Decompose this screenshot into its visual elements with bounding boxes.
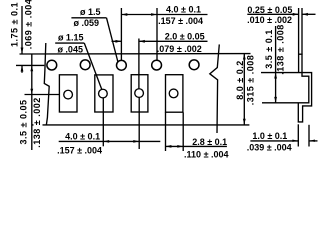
dim 2.8 extension right <box>182 112 184 151</box>
dim 4.0 top extension right <box>156 8 158 60</box>
arrow dim1.0 left (pointing right) <box>292 140 298 142</box>
sprocket hole S4 <box>152 60 162 70</box>
dim 0.25 extension left <box>298 8 300 54</box>
pocket2 center extension lower <box>102 98 104 146</box>
svg-text:.138 ± .008: .138 ± .008 <box>276 24 286 74</box>
svg-text:2.8 ± 0.1: 2.8 ± 0.1 <box>192 137 227 147</box>
arrow dim4.0bot right <box>133 140 139 143</box>
dim 1.75 lower arrow stub <box>21 65 23 72</box>
svg-text:3.5 ± 0.1: 3.5 ± 0.1 <box>264 29 274 68</box>
svg-text:.157 ± .004: .157 ± .004 <box>57 145 102 155</box>
dim 4.0 bottom line <box>59 140 161 142</box>
svg-text:ø .045: ø .045 <box>57 44 83 54</box>
arrow dim8.0 top <box>243 54 246 60</box>
pocket P4 <box>166 75 183 113</box>
pocket P2 <box>95 75 113 112</box>
dim 8.0 line <box>243 54 245 125</box>
dim 1.0 extension right <box>308 125 310 147</box>
pocket center extension line <box>25 94 60 96</box>
svg-text:0.25 ± 0.05: 0.25 ± 0.05 <box>247 5 292 15</box>
svg-text:1.75 ± 0.1: 1.75 ± 0.1 <box>10 2 20 47</box>
dim 0.25 extension right <box>301 8 303 54</box>
dia 1.15 underline <box>55 42 84 44</box>
dia 1.5 underline <box>71 17 106 19</box>
svg-text:1.0 ± 0.1: 1.0 ± 0.1 <box>252 131 287 141</box>
pocket hole H1 <box>64 90 73 99</box>
dim 0.25 line left <box>247 13 298 15</box>
side profile top bar <box>298 53 303 55</box>
arrow dim1.75 top (down at tape edge) <box>21 48 24 54</box>
sprocket hole S3 <box>117 60 127 70</box>
svg-text:.138 ± .002: .138 ± .002 <box>32 97 42 147</box>
svg-text:.079 ± .002: .079 ± .002 <box>157 44 202 54</box>
arrow dim1.75 bottom (up at sprocket center) <box>21 66 24 72</box>
svg-text:2.0 ± 0.05: 2.0 ± 0.05 <box>165 32 205 42</box>
dim 1.75 line <box>21 6 23 54</box>
arrow dim4.0top left <box>122 13 128 16</box>
dim 4.0 top line <box>121 14 207 16</box>
dim 1.0 line right stub <box>309 140 318 142</box>
arrow dim1.0 right (pointing left) <box>309 140 315 142</box>
arrow dim3.5L up <box>30 66 33 72</box>
dim 2.0 line <box>139 40 208 42</box>
dim 2.0 extension upper (pocket3 center) <box>138 39 140 89</box>
pocket P3 <box>131 75 148 112</box>
arrow dim0.25 left (pointing right) <box>293 13 299 16</box>
sprocket hole S5 <box>189 60 199 70</box>
arrow dim2.8 right <box>177 145 183 148</box>
svg-text:.315 ± .008: .315 ± .008 <box>245 55 255 105</box>
right break line <box>210 44 220 133</box>
tape top edge <box>20 53 251 55</box>
dia 1.5 leader <box>107 18 118 62</box>
svg-text:4.0 ± 0.1: 4.0 ± 0.1 <box>166 5 201 15</box>
svg-text:ø .059: ø .059 <box>74 18 100 28</box>
dim 2.8 line <box>166 145 227 147</box>
tape bottom edge left part <box>32 124 250 126</box>
dim 2.0 left stub <box>112 40 122 42</box>
svg-text:.010 ± .002: .010 ± .002 <box>247 15 292 25</box>
svg-text:8.0 ± 0.2: 8.0 ± 0.2 <box>235 60 245 99</box>
pocket hole H4 <box>169 89 178 98</box>
arrow dim2.0 left (outside pointing right) <box>116 40 122 43</box>
svg-text:ø 1.15: ø 1.15 <box>58 33 84 43</box>
svg-text:.069 ± .004: .069 ± .004 <box>24 0 34 49</box>
tape left edge (also 3.5 dim line) <box>31 54 33 150</box>
dia 1.15 leader <box>84 43 102 89</box>
dim 0.25 line right stub <box>302 13 316 15</box>
text .138 +- .002 (vertical, white bg) <box>32 97 42 147</box>
dim 1.0 line left <box>250 140 298 142</box>
arrow dim2.0 right (outside pointing left) <box>139 40 145 43</box>
arrow dim2.8 left <box>166 145 172 148</box>
arrow dim8.0 bottom <box>243 119 246 125</box>
sprocket hole S2 <box>80 60 90 70</box>
arrow dim3.5side up <box>274 73 277 79</box>
svg-text:3.5 ± 0.05: 3.5 ± 0.05 <box>19 100 29 145</box>
sprocket center extension line <box>16 64 44 66</box>
svg-text:.157 ± .004: .157 ± .004 <box>158 16 203 26</box>
dim 2.8 extension left <box>165 112 167 151</box>
side profile inner contour <box>262 54 309 103</box>
arrow dim3.5side down <box>274 97 277 103</box>
arrow dim4.0bot left <box>104 140 110 143</box>
svg-text:.110 ± .004: .110 ± .004 <box>184 150 228 159</box>
pocket P1 <box>59 75 77 112</box>
left break line <box>44 43 49 125</box>
dim 3.5 side line <box>275 26 277 103</box>
pocket hole H2 <box>99 89 108 98</box>
arrow dim0.25 right (pointing left) <box>302 13 308 16</box>
arrow dim4.0top right <box>151 13 157 16</box>
svg-text:ø 1.5: ø 1.5 <box>80 7 101 17</box>
pocket hole H3 <box>135 89 144 98</box>
side profile outer contour <box>261 73 312 122</box>
pocket3 center extension lower <box>138 98 140 149</box>
side profile left wall upper <box>298 54 300 73</box>
svg-text:.039 ± .004: .039 ± .004 <box>247 143 292 153</box>
sprocket hole S1 <box>47 60 57 70</box>
dim 1.0 extension left <box>297 124 299 146</box>
dim 4.0 top extension left <box>120 8 122 60</box>
arrow dim3.5L down <box>30 89 33 95</box>
svg-text:4.0 ± 0.1: 4.0 ± 0.1 <box>65 132 100 142</box>
